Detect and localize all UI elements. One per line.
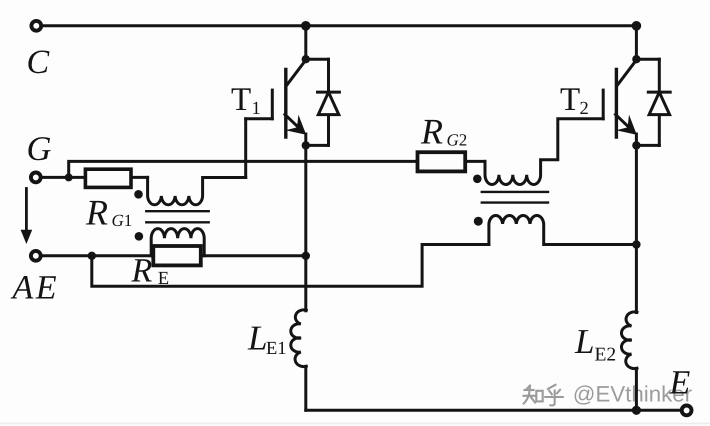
polarity dot TR1 secondary bbox=[135, 232, 144, 241]
transformer TR2 secondary winding bbox=[489, 215, 637, 244]
wire AE lead bbox=[42, 254, 92, 257]
arrow gate-emitter left bbox=[21, 189, 33, 245]
label LE2 glyph bbox=[575, 330, 593, 353]
label RE glyph bbox=[131, 259, 151, 281]
wire T2 emitter vertical bbox=[635, 145, 638, 312]
wire T1 collector drop bbox=[304, 26, 307, 59]
node T1 emitter bbox=[302, 141, 310, 149]
label RE sub E bbox=[158, 272, 168, 284]
label T1 glyph bbox=[232, 88, 251, 110]
label RG1 glyph bbox=[86, 201, 108, 225]
transformer TR2 core bbox=[482, 192, 548, 203]
terminal AE bbox=[31, 251, 41, 261]
node RE right junction bbox=[302, 252, 310, 260]
inductor LE1 bbox=[291, 310, 307, 367]
label T2 subscript bbox=[580, 102, 587, 114]
wire T1 gate riser bbox=[244, 119, 247, 178]
polarity dot TR1 primary bbox=[134, 190, 143, 199]
wire AE drop to lower bus bbox=[92, 245, 489, 287]
node bottom rail E junction bbox=[632, 406, 641, 415]
label RG1 sub 1 bbox=[125, 215, 131, 226]
terminal C bbox=[31, 21, 41, 31]
label LE1 glyph bbox=[248, 327, 266, 350]
node G junction bbox=[65, 173, 73, 181]
label A glyph bbox=[11, 276, 34, 298]
label RG2 sub 2 bbox=[460, 134, 467, 145]
watermark zhihu glyph 知 bbox=[524, 386, 543, 404]
diode D2 (anti-parallel with T2) bbox=[636, 59, 670, 145]
resistor RG1 bbox=[69, 169, 148, 187]
label T2 glyph bbox=[561, 88, 580, 110]
resistor RG2 bbox=[418, 152, 486, 171]
label RG2 glyph bbox=[421, 120, 443, 144]
node T2 collector bbox=[632, 55, 640, 63]
node junction top T2 bbox=[632, 21, 642, 31]
wire T1 emitter vertical bbox=[304, 145, 307, 255]
transformer TR1 core bbox=[146, 211, 208, 222]
label C glyph bbox=[28, 50, 49, 73]
polarity dot TR2 secondary bbox=[474, 217, 483, 226]
label LE2 sub bbox=[595, 348, 615, 361]
transformer TR2 primary winding bbox=[485, 119, 603, 185]
label LE1 sub bbox=[267, 342, 286, 354]
wire top rail C bus bbox=[42, 24, 636, 27]
wire G lead bbox=[42, 176, 69, 179]
wire LE2 to bottom rail bbox=[635, 368, 638, 410]
watermark zhihu glyph 乎 bbox=[545, 385, 563, 406]
label T1 subscript bbox=[253, 102, 260, 114]
transistor T2 (IGBT) bbox=[603, 60, 637, 145]
wire G bus riser bbox=[69, 161, 418, 177]
terminal G bbox=[31, 173, 41, 183]
wire bottom rail bbox=[306, 409, 687, 412]
node T1 collector bbox=[302, 55, 310, 63]
label G glyph bbox=[28, 137, 50, 160]
terminal E bbox=[682, 406, 692, 416]
polarity dot TR2 primary bbox=[473, 175, 482, 184]
wire LE1 to bottom rail bbox=[304, 366, 307, 410]
wire T2 collector drop bbox=[635, 26, 638, 59]
node T2 emitter bbox=[632, 141, 640, 149]
label E glyph bbox=[669, 371, 690, 393]
diode D1 (anti-parallel with T1) bbox=[306, 59, 340, 145]
resistor RE bbox=[92, 246, 306, 265]
label RG1 sub G bbox=[112, 215, 123, 226]
node junction top T1 bbox=[301, 21, 311, 31]
watermark text bbox=[575, 385, 692, 404]
label AE-E glyph bbox=[35, 276, 56, 298]
node TR2 secondary to T2 emitter bbox=[632, 240, 640, 248]
node AE junction bbox=[88, 252, 96, 260]
label RG2 sub G bbox=[447, 134, 458, 145]
page bottom rule bbox=[0, 423, 710, 425]
inductor LE2 bbox=[621, 312, 637, 369]
transistor T1 (IGBT) bbox=[246, 60, 307, 145]
transformer TR1 primary winding bbox=[148, 177, 246, 204]
transformer TR1 secondary winding bbox=[151, 229, 204, 256]
wire T1 emitter to LE1 bbox=[304, 256, 307, 311]
